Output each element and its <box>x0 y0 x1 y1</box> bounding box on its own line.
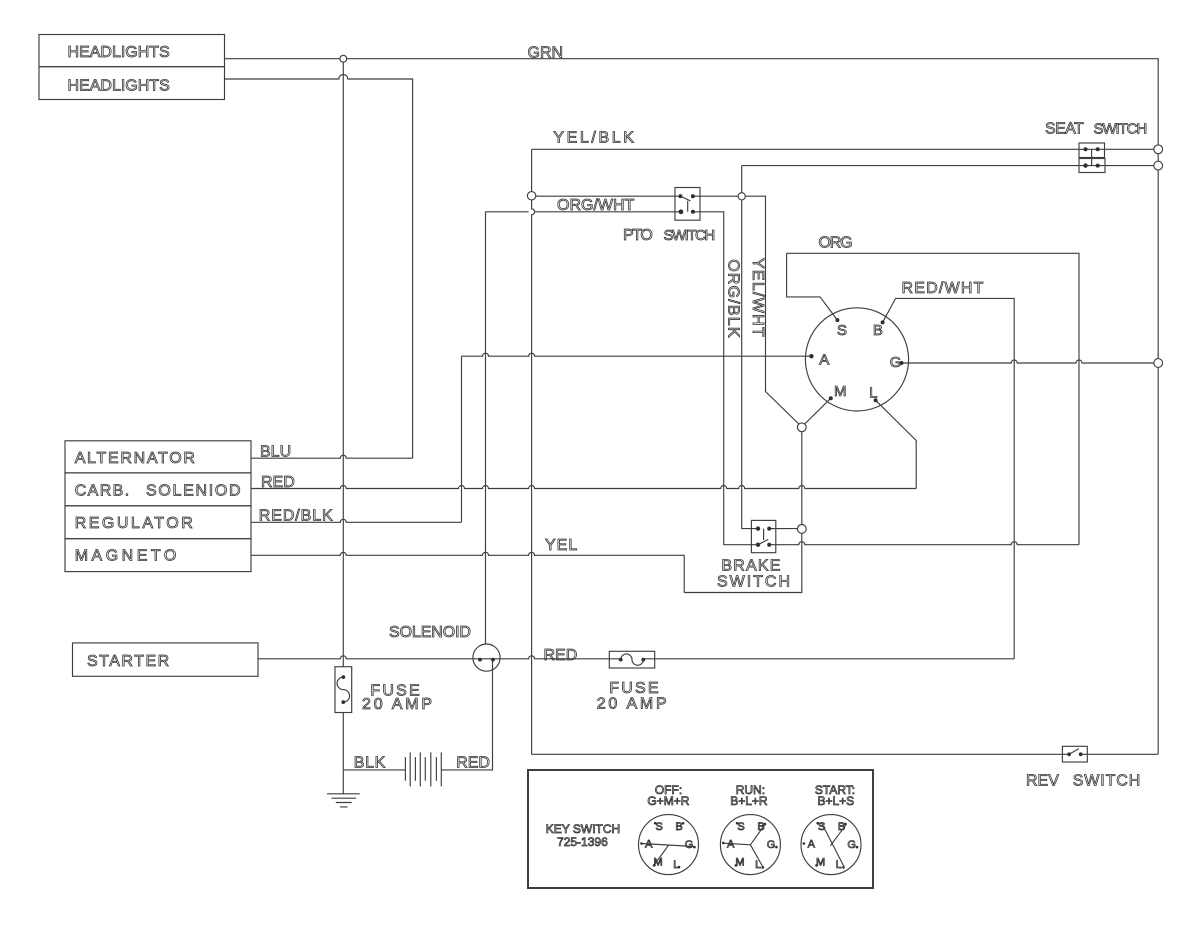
svg-text:RED: RED <box>544 647 578 664</box>
wire x801 node to yel jog <box>684 427 802 592</box>
wire headlights2 to vertical x412 <box>225 75 413 459</box>
svg-text:SOLENOID: SOLENOID <box>389 624 471 641</box>
wire BLU <box>251 455 413 458</box>
wire left bus x343 <box>342 59 344 794</box>
solenoid terminal dots <box>478 658 495 662</box>
solenoid circle <box>473 644 500 671</box>
key switch circle U1 <box>805 308 908 411</box>
node yelblk orgwht junction <box>527 192 535 200</box>
regulator box <box>65 506 251 539</box>
svg-text:G+M+R: G+M+R <box>647 794 689 808</box>
svg-text:RED: RED <box>456 754 490 771</box>
wire A terminal <box>462 353 812 522</box>
alternator box <box>65 441 251 473</box>
battery symbol <box>405 752 441 786</box>
svg-text:ORG/BLK: ORG/BLK <box>725 259 742 339</box>
svg-text:L: L <box>673 859 679 871</box>
seat switch boxes <box>1079 143 1105 173</box>
svg-text:G: G <box>847 839 856 851</box>
brake switch box <box>751 520 775 552</box>
node right bus second <box>1154 161 1163 170</box>
wire YEL magneto <box>251 552 684 592</box>
wire GRN top bus and right bus <box>225 59 1159 755</box>
wire solenoid link <box>485 212 487 644</box>
svg-text:G: G <box>890 354 902 371</box>
svg-text:A: A <box>819 351 829 368</box>
svg-text:G: G <box>767 839 776 851</box>
key switch legend box <box>528 770 873 888</box>
svg-text:FUSE: FUSE <box>609 680 660 697</box>
svg-text:SEAT: SEAT <box>1045 120 1084 137</box>
svg-text:725-1396: 725-1396 <box>557 835 608 849</box>
wire PTO bottom / ORG-BLK <box>486 212 1080 545</box>
svg-text:GRN: GRN <box>528 44 564 61</box>
svg-text:CARB.: CARB. <box>75 482 131 499</box>
key switch terminal dots and letters <box>809 318 903 402</box>
svg-text:S: S <box>837 322 847 339</box>
node brake junction <box>797 525 806 534</box>
svg-text:REV: REV <box>1026 773 1059 790</box>
svg-text:B: B <box>873 322 883 339</box>
wire bottom rev <box>532 753 1159 755</box>
node right bus top <box>1154 145 1163 154</box>
svg-text:M: M <box>816 856 825 868</box>
svg-text:YEL/BLK: YEL/BLK <box>553 130 636 147</box>
wire YEL/BLK <box>532 148 1159 150</box>
rev switch box <box>1062 746 1087 762</box>
node headlight junction <box>340 55 347 62</box>
svg-text:RED: RED <box>261 474 295 491</box>
headlights box 1 <box>39 35 225 67</box>
legend circle OFF <box>639 815 699 875</box>
svg-text:B: B <box>675 821 682 833</box>
wire vertical x531 yelblk drop <box>532 149 535 754</box>
wire G terminal <box>902 360 1159 363</box>
svg-text:M: M <box>834 383 847 400</box>
svg-text:S: S <box>737 821 744 833</box>
svg-text:L: L <box>755 859 761 871</box>
svg-text:ORG: ORG <box>819 235 853 252</box>
carb solenoid box <box>65 473 251 506</box>
svg-text:KEY SWITCH: KEY SWITCH <box>546 822 620 836</box>
wire vertical x741 seat to brake <box>742 166 798 529</box>
svg-text:BLK: BLK <box>354 754 386 771</box>
wire RED/BLK <box>251 519 462 522</box>
fuse F2 horizontal <box>609 651 654 668</box>
svg-text:REGULATOR: REGULATOR <box>75 515 196 532</box>
wire M terminal diagonal <box>802 398 831 426</box>
svg-text:B+L+S: B+L+S <box>817 794 854 808</box>
wire ORG <box>787 253 1079 544</box>
svg-text:BRAKE: BRAKE <box>721 557 781 574</box>
svg-text:SWITCH: SWITCH <box>1094 120 1147 137</box>
svg-text:A: A <box>808 839 816 851</box>
svg-text:SWITCH: SWITCH <box>1073 773 1142 790</box>
svg-text:L: L <box>869 384 877 401</box>
svg-text:S: S <box>656 821 663 833</box>
wire battery red up <box>441 660 492 770</box>
wire RED long <box>251 486 916 489</box>
svg-text:M: M <box>654 856 663 868</box>
legend circle START <box>801 815 861 875</box>
svg-text:20 AMP: 20 AMP <box>597 696 670 713</box>
wire seat bottom <box>742 165 1158 167</box>
svg-text:ALTERNATOR: ALTERNATOR <box>75 450 197 467</box>
svg-text:20 AMP: 20 AMP <box>362 696 435 713</box>
node right bus G <box>1154 359 1163 368</box>
svg-text:SWITCH: SWITCH <box>717 574 792 591</box>
wire ORG/WHT <box>536 196 802 426</box>
svg-text:PTO: PTO <box>623 227 652 244</box>
starter box <box>73 643 259 676</box>
wire starter red <box>258 656 1014 659</box>
svg-text:RED/WHT: RED/WHT <box>902 280 985 297</box>
headlights box 2 <box>39 67 225 100</box>
ground <box>327 794 360 807</box>
wire L terminal to red <box>876 400 917 488</box>
svg-text:SOLENIOD: SOLENIOD <box>146 482 242 499</box>
svg-text:YEL: YEL <box>545 537 578 554</box>
wire battery blk <box>343 769 405 771</box>
svg-text:MAGNETO: MAGNETO <box>75 547 180 564</box>
legend circle RUN <box>720 815 780 875</box>
svg-text:ORG/WHT: ORG/WHT <box>557 197 635 214</box>
svg-text:SWITCH: SWITCH <box>664 227 715 244</box>
svg-text:RED/BLK: RED/BLK <box>259 507 334 524</box>
magneto box <box>65 539 251 572</box>
svg-text:STARTER: STARTER <box>87 653 171 670</box>
svg-text:HEADLIGHTS: HEADLIGHTS <box>68 44 170 61</box>
svg-text:M: M <box>735 856 744 868</box>
svg-text:BLU: BLU <box>260 444 291 461</box>
node M junction <box>797 423 806 432</box>
node pto seat junction <box>738 193 745 200</box>
wire RED/WHT <box>883 298 1015 658</box>
svg-text:G: G <box>685 839 694 851</box>
svg-text:A: A <box>727 839 735 851</box>
svg-text:YEL/WHT: YEL/WHT <box>749 258 766 338</box>
fuse F1 vertical <box>335 667 352 713</box>
svg-text:HEADLIGHTS: HEADLIGHTS <box>68 78 170 95</box>
svg-text:B+L+R: B+L+R <box>730 794 768 808</box>
pto switch box <box>675 188 700 221</box>
